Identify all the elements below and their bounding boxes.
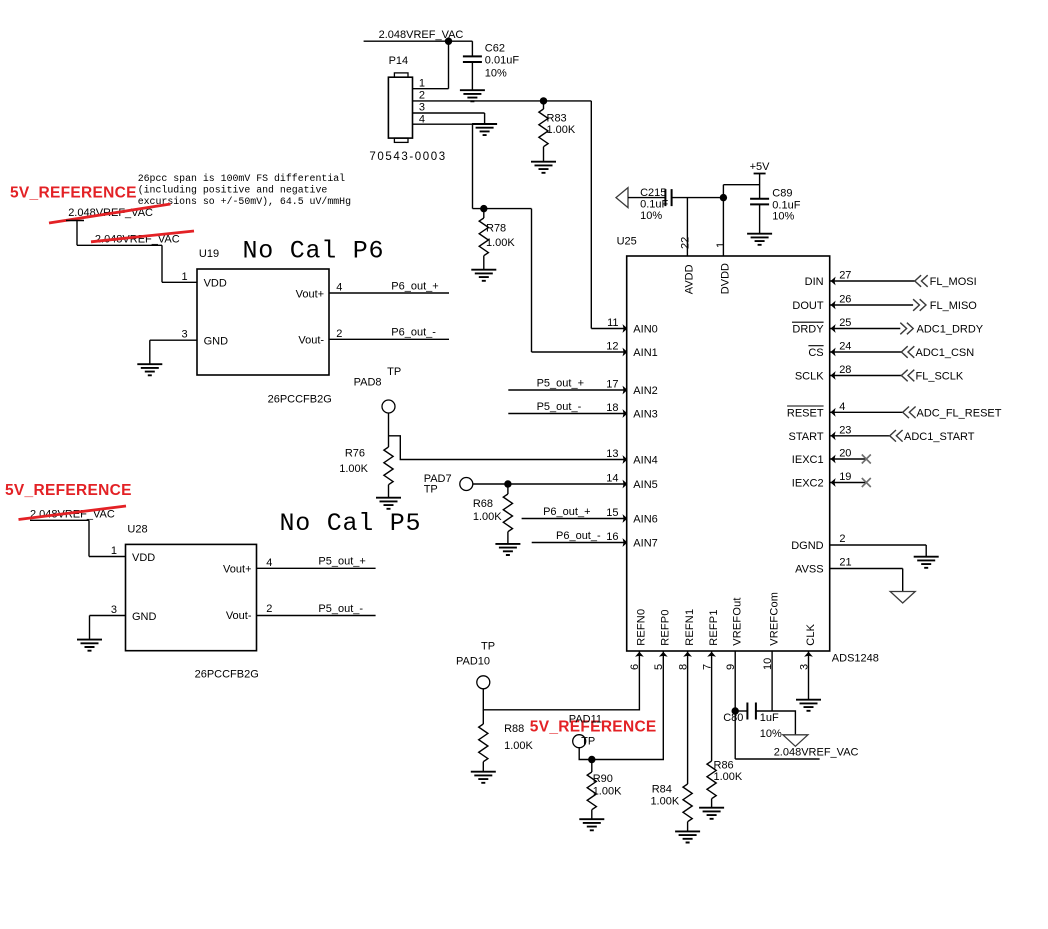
svg-text:10%: 10% (485, 68, 507, 80)
svg-text:P5_out_+: P5_out_+ (318, 556, 365, 568)
red strike 2 (91, 231, 194, 242)
ground (R76) (376, 498, 401, 509)
svg-text:AIN3: AIN3 (633, 409, 657, 421)
wire U19 Vout- / net P6_out_- (329, 338, 449, 340)
wire P14 pin 4 (413, 123, 473, 125)
svg-text:2: 2 (419, 90, 425, 102)
svg-text:2: 2 (266, 603, 272, 615)
svg-text:GND: GND (204, 336, 229, 348)
svg-text:AIN0: AIN0 (633, 324, 657, 336)
wire VREFCom down (771, 651, 773, 711)
svg-text:1: 1 (111, 545, 117, 557)
wire AIN0 riser (590, 101, 592, 329)
net flag FL_MOSI (915, 275, 928, 287)
resistor R68 (507, 484, 509, 494)
wire +5V to DVDD (723, 184, 759, 186)
svg-text:AVSS: AVSS (795, 564, 824, 576)
ground (C80 net, open triangle) (783, 735, 808, 747)
ground (AVSS, open triangle) (890, 592, 915, 604)
svg-text:U28: U28 (127, 524, 147, 536)
svg-text:No Cal P6: No Cal P6 (243, 237, 385, 266)
svg-text:3: 3 (181, 329, 187, 341)
test point PAD8 (382, 400, 395, 413)
svg-text:22: 22 (679, 237, 691, 249)
wire C62 bottom lead (471, 62, 473, 90)
svg-text:P6_out_+: P6_out_+ (391, 280, 438, 292)
wire U19 GND (150, 339, 197, 341)
svg-text:1.00K: 1.00K (714, 771, 743, 783)
svg-text:18: 18 (606, 402, 618, 414)
svg-text:RESET: RESET (787, 407, 824, 419)
svg-text:P14: P14 (389, 55, 409, 67)
junction R83 top (540, 97, 547, 104)
svg-text:AVDD: AVDD (683, 264, 695, 294)
ground (P14 pins 3-4) (472, 124, 497, 135)
svg-text:1uF: 1uF (760, 712, 779, 724)
no-connect IEXC2 (862, 478, 871, 487)
svg-text:4: 4 (336, 282, 342, 294)
svg-text:REFN0: REFN0 (636, 609, 648, 646)
wire AIN3 / net P5_out_- (508, 413, 626, 415)
ground (U28 GND) (77, 640, 102, 651)
svg-text:27: 27 (839, 270, 851, 282)
ground (DGND) (914, 557, 939, 568)
svg-text:10%: 10% (760, 728, 782, 740)
connector P14 body (388, 77, 412, 138)
test point PAD7 (460, 478, 473, 491)
svg-text:FL_SCLK: FL_SCLK (916, 371, 964, 383)
wire R78 node horizontal (473, 208, 532, 210)
svg-text:21: 21 (839, 556, 851, 568)
junction R90 top (588, 756, 595, 763)
svg-text:REFP1: REFP1 (708, 609, 720, 645)
wire PAD11 to REFP0 (579, 651, 663, 760)
svg-text:U25: U25 (617, 236, 637, 248)
svg-text:CLK: CLK (805, 623, 817, 645)
svg-text:5V_REFERENCE: 5V_REFERENCE (10, 184, 137, 201)
junction C80 left (732, 707, 739, 714)
svg-text:R78: R78 (486, 222, 506, 234)
svg-text:1: 1 (419, 78, 425, 90)
wire CLK down (808, 651, 810, 699)
svg-text:REFP0: REFP0 (660, 609, 672, 645)
wire AVSS down (902, 569, 904, 592)
wire U28 Vout- / net P5_out_- (257, 615, 376, 617)
junction at P14 pin1 riser (445, 38, 452, 45)
wire VREFOut down (734, 651, 736, 759)
svg-text:DIN: DIN (805, 276, 824, 288)
svg-text:26PCCFB2G: 26PCCFB2G (195, 669, 259, 681)
wire AIN0 horizontal (591, 328, 626, 330)
wire AIN1 horizontal (532, 351, 627, 353)
resistor R78 (483, 209, 485, 218)
svg-text:16: 16 (606, 531, 618, 543)
svg-text:P5_out_+: P5_out_+ (537, 377, 584, 389)
wire AIN7 / net P6_out_- (532, 542, 627, 544)
svg-text:C62: C62 (485, 43, 505, 55)
svg-text:FL_MOSI: FL_MOSI (930, 276, 977, 288)
svg-text:AIN1: AIN1 (633, 347, 657, 359)
wire AIN1 riser (531, 209, 533, 352)
wire label stub down (76, 221, 78, 246)
svg-text:IEXC2: IEXC2 (792, 478, 824, 490)
svg-text:AIN6: AIN6 (633, 514, 657, 526)
junction R78 top (480, 205, 487, 212)
svg-text:2: 2 (839, 533, 845, 545)
wire P14 pin 3 (413, 112, 485, 114)
net flag ADC1_CSN (901, 346, 914, 358)
capacitor C62 (463, 56, 482, 62)
svg-text:3: 3 (111, 604, 117, 616)
red strike 1 (49, 204, 171, 223)
svg-text:1: 1 (715, 242, 727, 248)
wire AIN2 / net P5_out_+ (508, 389, 626, 391)
net stub under label (66, 220, 84, 222)
resistor R83 (543, 101, 545, 109)
svg-text:R86: R86 (714, 759, 734, 771)
svg-text:0.01uF: 0.01uF (485, 55, 520, 67)
ground (R83) (531, 162, 556, 173)
IC U25 body (627, 256, 830, 651)
svg-text:ADC1_CSN: ADC1_CSN (916, 347, 975, 359)
svg-text:GND: GND (132, 611, 157, 623)
svg-text:Vout+: Vout+ (223, 564, 251, 576)
net flag ADC_FL_RESET (903, 407, 916, 419)
svg-text:No Cal P5: No Cal P5 (280, 509, 422, 538)
svg-text:1.00K: 1.00K (593, 786, 622, 798)
svg-text:AIN4: AIN4 (633, 455, 657, 467)
svg-text:1.00K: 1.00K (650, 796, 679, 808)
test point PAD11 (573, 735, 586, 748)
capacitor C80 (735, 710, 747, 712)
svg-text:PAD11: PAD11 (569, 714, 602, 726)
net flag FL_SCLK (901, 370, 914, 382)
wire +5V down (759, 174, 761, 199)
resistor R88 (482, 710, 484, 724)
svg-text:15: 15 (606, 507, 618, 519)
ground (R88) (471, 772, 496, 783)
svg-text:P6_out_-: P6_out_- (391, 327, 436, 339)
wire P14 pin 1 (413, 88, 449, 90)
svg-text:R76: R76 (345, 447, 365, 459)
ground (U19 GND) (137, 364, 162, 375)
svg-text:11: 11 (607, 317, 618, 329)
svg-text:28: 28 (839, 364, 851, 376)
svg-text:10%: 10% (772, 211, 794, 223)
svg-text:AIN5: AIN5 (633, 479, 657, 491)
wire pin4 node down to R78 node (472, 124, 474, 208)
svg-text:1.00K: 1.00K (473, 511, 502, 523)
svg-text:DVDD: DVDD (719, 263, 731, 294)
svg-text:R68: R68 (473, 498, 493, 510)
ground (R78) (471, 270, 496, 281)
wire U19 Vout+ / net P6_out_+ (329, 292, 449, 294)
svg-text:DOUT: DOUT (792, 300, 823, 312)
svg-text:17: 17 (606, 379, 618, 391)
svg-text:2.048VREF_VAC: 2.048VREF_VAC (774, 747, 859, 759)
wire PAD7 to AIN5 (473, 483, 627, 485)
net stub under U28 label (30, 519, 89, 521)
svg-text:1.00K: 1.00K (486, 237, 515, 249)
svg-text:0.1uF: 0.1uF (640, 198, 668, 210)
svg-text:+5V: +5V (750, 161, 771, 173)
svg-text:TP: TP (424, 483, 438, 495)
svg-text:13: 13 (606, 448, 618, 460)
wire to C215 (628, 197, 665, 199)
ground (R68) (495, 544, 520, 555)
svg-text:VREFOut: VREFOut (732, 597, 744, 645)
svg-text:1.00K: 1.00K (339, 463, 368, 475)
resistor R76 (384, 447, 393, 485)
wire U28 Vout+ / net P5_out_+ (257, 567, 376, 569)
junction R68 top (504, 480, 511, 487)
svg-text:REFN1: REFN1 (684, 609, 696, 646)
resistor R90 (591, 760, 593, 773)
wire PAD8 branch to AIN4 (389, 436, 627, 460)
wire C62 top lead (471, 41, 473, 56)
svg-text:excursions so +/-50mV), 64.5 u: excursions so +/-50mV), 64.5 uV/mmHg (138, 196, 351, 207)
net flag ADC1_DRDY (900, 323, 913, 335)
svg-text:12: 12 (606, 341, 618, 353)
svg-text:5V_REFERENCE: 5V_REFERENCE (5, 482, 132, 499)
ground (C62) (460, 90, 485, 101)
wire P14 pin1 riser (448, 41, 450, 88)
svg-text:U19: U19 (199, 248, 219, 260)
svg-text:C215: C215 (640, 187, 666, 199)
svg-text:PAD10: PAD10 (456, 655, 490, 667)
svg-text:FL_MISO: FL_MISO (930, 300, 978, 312)
svg-text:26pcc span is 100mV FS differe: 26pcc span is 100mV FS differential (138, 173, 345, 184)
svg-text:26PCCFB2G: 26PCCFB2G (268, 394, 332, 406)
ground (C89) (747, 234, 772, 245)
svg-text:14: 14 (606, 473, 618, 485)
resistor R86 (REFP1) (711, 651, 713, 761)
wire AIN6 / net P6_out_+ (522, 518, 627, 520)
svg-text:ADS1248: ADS1248 (832, 653, 879, 665)
svg-text:2: 2 (336, 328, 342, 340)
red strike 3 (19, 506, 127, 520)
wire U28 GND (90, 615, 126, 617)
test point PAD10 (477, 676, 490, 689)
svg-text:R90: R90 (593, 773, 613, 785)
svg-text:20: 20 (839, 448, 851, 460)
svg-text:Vout+: Vout+ (296, 288, 324, 300)
wire to U19 VDD part1 (77, 244, 162, 246)
svg-text:CS: CS (808, 347, 823, 359)
svg-text:24: 24 (839, 341, 851, 353)
svg-text:R84: R84 (652, 784, 672, 796)
svg-text:70543-0003: 70543-0003 (369, 151, 446, 163)
svg-text:VREFCom: VREFCom (768, 592, 780, 646)
svg-text:START: START (789, 431, 824, 443)
svg-text:TP: TP (481, 641, 495, 653)
svg-text:ADC1_START: ADC1_START (904, 431, 975, 443)
svg-text:25: 25 (839, 317, 851, 329)
svg-text:19: 19 (839, 471, 851, 483)
svg-text:(including positive and negati: (including positive and negative (138, 185, 328, 196)
svg-text:IEXC1: IEXC1 (792, 454, 824, 466)
svg-text:R83: R83 (547, 112, 567, 124)
svg-text:1: 1 (181, 271, 187, 283)
svg-text:P5_out_-: P5_out_- (318, 603, 363, 615)
capacitor C215 (665, 189, 671, 206)
svg-text:R88: R88 (504, 723, 524, 735)
svg-text:1.00K: 1.00K (547, 124, 576, 136)
sensor U19 body (197, 269, 329, 375)
svg-text:10%: 10% (640, 210, 662, 222)
capacitor C89 (750, 199, 769, 205)
wire C80 right to triangle ground (756, 711, 796, 735)
svg-text:P6_out_-: P6_out_- (556, 530, 601, 542)
ground (R90) (579, 819, 604, 830)
wire 2.048VREF_VAC horizontal (364, 40, 473, 42)
wire C89 bottom lead (759, 204, 761, 233)
svg-text:ADC1_DRDY: ADC1_DRDY (917, 324, 984, 336)
wire C215 to DVDD node (672, 197, 724, 199)
wire VREFOut to net label (735, 758, 819, 760)
svg-text:PAD8: PAD8 (354, 377, 382, 389)
ground (R84) (675, 831, 700, 842)
svg-text:4: 4 (839, 401, 845, 413)
ground (CLK) (796, 700, 821, 711)
svg-text:TP: TP (387, 366, 401, 378)
wire DGND down (925, 545, 927, 556)
junction DVDD node (720, 194, 727, 201)
wire PAD10 to REFN0 (483, 651, 639, 710)
svg-text:26: 26 (839, 294, 851, 306)
ground (R86) (699, 808, 724, 819)
svg-text:4: 4 (266, 557, 272, 569)
wire to U28 VDD (88, 520, 90, 556)
svg-text:Vout-: Vout- (298, 335, 324, 347)
svg-text:P5_out_-: P5_out_- (537, 401, 582, 413)
svg-text:SCLK: SCLK (795, 371, 824, 383)
svg-text:23: 23 (839, 424, 851, 436)
svg-text:1.00K: 1.00K (504, 740, 533, 752)
svg-text:P6_out_+: P6_out_+ (543, 506, 590, 518)
svg-text:C80: C80 (723, 712, 743, 724)
resistor R84 (REFN1) (687, 651, 689, 784)
svg-text:ADC_FL_RESET: ADC_FL_RESET (917, 407, 1002, 419)
wire P14 pin 2 to AIN0 riser (413, 100, 592, 102)
sensor U28 body (126, 544, 257, 650)
svg-text:DGND: DGND (791, 540, 823, 552)
wire PAD8 down (388, 413, 390, 447)
svg-text:VDD: VDD (132, 552, 155, 564)
net arrow (C215 input) (616, 188, 628, 208)
net flag FL_MISO (913, 299, 926, 311)
svg-text:VDD: VDD (204, 278, 227, 290)
svg-text:AIN2: AIN2 (633, 385, 657, 397)
svg-text:3: 3 (419, 102, 425, 114)
svg-text:AIN7: AIN7 (633, 538, 657, 550)
svg-text:DRDY: DRDY (792, 324, 824, 336)
svg-text:C89: C89 (772, 188, 792, 200)
no-connect IEXC1 (862, 455, 871, 464)
net flag ADC1_START (890, 430, 903, 442)
svg-text:Vout-: Vout- (226, 610, 252, 622)
